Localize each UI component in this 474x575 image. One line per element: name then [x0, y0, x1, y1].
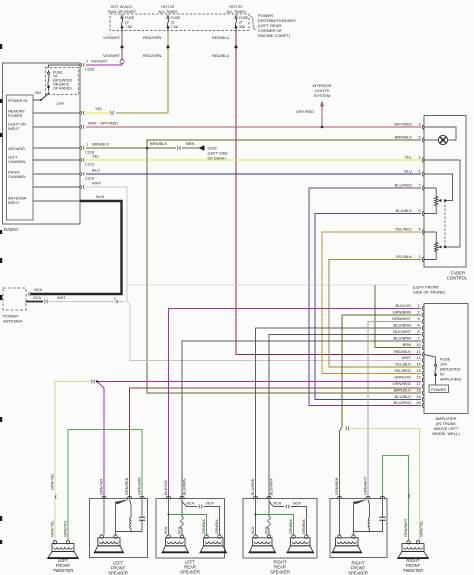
- radio ground connector C216: [81, 146, 85, 150]
- svg-text:10A: 10A: [440, 363, 447, 367]
- svg-text:BRN/BLK: BRN/BLK: [150, 141, 167, 146]
- svg-text:G202: G202: [208, 147, 217, 151]
- svg-text:OFF: OFF: [57, 102, 65, 106]
- svg-text:GRN/YEL: GRN/YEL: [420, 520, 424, 537]
- svg-text:MEMORY: MEMORY: [8, 110, 25, 114]
- svg-text:SPEAKER: SPEAKER: [270, 570, 290, 575]
- svg-text:GROUND: GROUND: [8, 147, 25, 151]
- svg-text:ALL TIMES: ALL TIMES: [226, 10, 246, 14]
- wire GRN/YEL to right front tweeter: [351, 429, 420, 541]
- right front speaker wires internal: [339, 499, 341, 536]
- wire GRN bridge right front speaker to tweeter: [383, 456, 409, 541]
- connector on GRN/BRN to GRN/YEL: [346, 427, 350, 431]
- svg-text:RED/BLK: RED/BLK: [394, 349, 411, 354]
- connector on right tweeter wire: [408, 494, 411, 498]
- svg-text:POWER IN: POWER IN: [8, 99, 27, 103]
- wire GRN/WHT amp 3 to right front speaker: [368, 322, 421, 499]
- svg-text:GRN/YEL: GRN/YEL: [51, 473, 55, 490]
- svg-text:AMPLIFIER): AMPLIFIER): [440, 378, 462, 382]
- wire VIO/GRY radio pin 2 to splice: [86, 64, 122, 66]
- svg-text:GRY/RED: GRY/RED: [100, 121, 118, 126]
- svg-text:GRN/BLK: GRN/BLK: [302, 518, 306, 534]
- svg-text:BLU/RED: BLU/RED: [395, 183, 412, 188]
- wire YEL radio left channel to fader pin 1: [86, 159, 421, 161]
- svg-text:NCA: NCA: [293, 502, 301, 506]
- connector on GRN/VIO to GRN/YEL: [91, 380, 95, 384]
- svg-text:RED/GRN: RED/GRN: [143, 35, 162, 40]
- fader pin 3 internal wire: [424, 127, 456, 140]
- svg-text:OF RADIO): OF RADIO): [53, 87, 72, 91]
- svg-text:GRN/WHT: GRN/WHT: [404, 518, 408, 537]
- fader balance pot 1: [424, 188, 436, 197]
- fuse 21 7.5A: [167, 15, 169, 17]
- left front speaker coil: [130, 500, 132, 518]
- svg-text:1: 1: [114, 297, 116, 301]
- svg-text:YEL/RED: YEL/RED: [395, 227, 412, 232]
- svg-text:BRN: BRN: [403, 342, 412, 347]
- left front speaker wires internal: [103, 499, 105, 536]
- fader wiper link dashed: [444, 201, 446, 248]
- svg-text:1: 1: [86, 143, 88, 147]
- svg-text:YEL/RED: YEL/RED: [394, 368, 411, 373]
- connector on YEL to RED/GRN wire: [110, 111, 114, 115]
- svg-text:IN: IN: [440, 373, 444, 377]
- svg-text:LEFT: LEFT: [8, 156, 18, 160]
- left front side of trunk leader line: [128, 284, 408, 286]
- svg-text:BLU/BRN: BLU/BRN: [251, 478, 255, 495]
- svg-text:NCA: NCA: [164, 526, 168, 534]
- right rear speaker box: [243, 499, 317, 559]
- radio memory power stub: [33, 112, 80, 114]
- svg-text:NCA: NCA: [206, 502, 214, 506]
- interior lights arrow: [321, 106, 323, 127]
- svg-text:GRN/BLK: GRN/BLK: [289, 518, 293, 534]
- svg-text:BLU/BLK: BLU/BLK: [395, 394, 412, 399]
- svg-text:NCA: NCA: [187, 502, 195, 506]
- svg-text:ALL TIMES: ALL TIMES: [158, 10, 178, 14]
- svg-text:GRN/VIO: GRN/VIO: [100, 479, 104, 495]
- svg-text:HOT IN ACC,: HOT IN ACC,: [111, 5, 134, 9]
- svg-text:SPEAKER: SPEAKER: [348, 571, 368, 575]
- radio light on stub: [33, 126, 80, 128]
- fader pin 8 internal wire: [424, 139, 438, 141]
- ground connector: [177, 146, 181, 150]
- radio fuse wire to pin 2: [49, 65, 81, 68]
- svg-text:12: 12: [416, 355, 421, 360]
- wire BRN amp pin 10: [375, 285, 421, 348]
- right front speaker terminals: [337, 496, 341, 498]
- radio inner box: [7, 95, 34, 220]
- svg-text:BLK/WHT: BLK/WHT: [393, 329, 411, 334]
- svg-text:FUSE: FUSE: [440, 358, 451, 362]
- fader illumination lamp: [438, 135, 447, 144]
- wire GRN/RED amp 17 to left front speaker: [130, 388, 422, 499]
- svg-text:WHT: WHT: [88, 121, 98, 126]
- wire WHT radio to antenna junction and amp pin 12: [86, 187, 421, 361]
- svg-text:CONTROL: CONTROL: [447, 276, 468, 281]
- radio fuse 7A symbol: [48, 70, 50, 72]
- svg-text:GRY/RED: GRY/RED: [394, 122, 412, 127]
- svg-text:POWER: POWER: [8, 114, 23, 118]
- radio fuse 7A dashed box: [46, 68, 79, 95]
- svg-text:SIDE OF TRUNK): SIDE OF TRUNK): [413, 290, 446, 295]
- svg-text:15: 15: [416, 368, 421, 373]
- svg-text:C213: C213: [85, 163, 94, 167]
- svg-text:GRN/RED: GRN/RED: [125, 477, 129, 495]
- amplifier pin sockets and labels: [423, 306, 424, 311]
- svg-text:GRN/BRN: GRN/BRN: [335, 477, 339, 495]
- svg-text:GRN/BLK: GRN/BLK: [202, 518, 206, 534]
- wire BLK/WHT amp 5 to right rear speaker: [269, 335, 421, 499]
- svg-text:21: 21: [171, 21, 175, 25]
- right front speaker driver: [336, 538, 359, 546]
- fader pin 1 internal wire: [424, 160, 460, 247]
- svg-text:VIO/GRY: VIO/GRY: [91, 59, 108, 64]
- svg-text:BLU/BRN: BLU/BRN: [183, 478, 187, 495]
- wire BLU/BLK fader 5 to amp 19: [315, 214, 421, 400]
- svg-text:RED/GRN: RED/GRN: [143, 53, 162, 58]
- radio pin 2 connector C216: [81, 63, 85, 67]
- svg-text:12: 12: [125, 21, 129, 25]
- radio light-on connector: [81, 125, 85, 129]
- svg-text:GRY/RED: GRY/RED: [296, 109, 314, 114]
- svg-text:FUSE: FUSE: [239, 16, 249, 20]
- radio right channel wht stub: [33, 186, 80, 188]
- svg-text:20: 20: [416, 400, 421, 405]
- wire YEL/BLK fader 2 to amp 14: [329, 260, 421, 368]
- svg-text:GRN/VIO: GRN/VIO: [394, 375, 411, 380]
- radio right channel connector C214: [81, 172, 85, 176]
- svg-text:BRN: BRN: [186, 141, 195, 146]
- svg-text:GRN/WHT: GRN/WHT: [392, 316, 412, 321]
- amplifier fuse 10A: [424, 355, 436, 363]
- svg-text:NCA: NCA: [34, 288, 42, 292]
- svg-text:HOT AT: HOT AT: [229, 5, 243, 9]
- svg-text:NCA: NCA: [96, 194, 105, 199]
- fader control box: [424, 116, 466, 268]
- svg-text:GRN/VIO: GRN/VIO: [64, 521, 68, 537]
- svg-text:BRN/BLK: BRN/BLK: [395, 135, 412, 140]
- right front speaker box: [330, 499, 387, 558]
- radio wht connector: [81, 185, 85, 189]
- svg-text:YEL/BLK: YEL/BLK: [395, 362, 412, 367]
- svg-text:HOT AT: HOT AT: [161, 5, 175, 9]
- svg-text:BLK/VIO: BLK/VIO: [395, 303, 411, 308]
- power distribution box callout text: [250, 16, 256, 30]
- power antenna box: [3, 288, 26, 310]
- svg-text:SPEAKER: SPEAKER: [180, 570, 200, 575]
- svg-text:NCA: NCA: [274, 502, 282, 506]
- svg-text:WHEEL WELL): WHEEL WELL): [432, 431, 460, 436]
- left front speaker box: [90, 499, 148, 558]
- radio power switch: [33, 99, 41, 101]
- svg-text:YEL/BLK: YEL/BLK: [396, 254, 413, 259]
- wire BLK/VIO amp 1 to left rear speaker: [169, 309, 422, 499]
- svg-text:BLU/RED: BLU/RED: [394, 400, 411, 405]
- svg-text:RED/BLU: RED/BLU: [212, 53, 229, 58]
- svg-text:BLK/VIO: BLK/VIO: [164, 480, 168, 495]
- svg-text:BRN/BLK: BRN/BLK: [92, 142, 109, 147]
- svg-text:30A: 30A: [239, 25, 246, 29]
- left rear speaker box: [156, 499, 225, 559]
- amplifier box: [424, 304, 468, 414]
- svg-text:RADIO: RADIO: [4, 227, 18, 232]
- svg-text:WHT: WHT: [92, 181, 102, 186]
- radio outer box: [3, 63, 81, 224]
- splice circle VIO/WHT to VIO/GRY: [120, 60, 124, 64]
- svg-text:YEL: YEL: [404, 155, 412, 160]
- fader pin 6 internal wire: [424, 174, 453, 201]
- svg-text:GRN/WHT: GRN/WHT: [364, 476, 368, 495]
- svg-text:NCA: NCA: [33, 296, 41, 300]
- radio ground stub: [33, 147, 80, 149]
- radio memory connector: [81, 111, 85, 115]
- fader balance pot 2: [424, 232, 436, 243]
- svg-text:YEL: YEL: [95, 106, 103, 111]
- connector on left tweeter wire: [54, 495, 57, 499]
- wire BRN/BLK radio ground: [86, 147, 176, 149]
- left front tweeter: [52, 544, 74, 552]
- wire GRN bridge left front speaker to tweeter: [68, 430, 142, 541]
- svg-text:CHANNEL: CHANNEL: [8, 175, 26, 179]
- radio left channel connector C213: [81, 158, 85, 162]
- svg-text:7.5A: 7.5A: [171, 25, 179, 29]
- wire RED/GRN fuse 21 to radio memory power: [116, 31, 168, 114]
- fader pin sockets and labels: [423, 125, 424, 130]
- svg-text:GRN/BRN: GRN/BRN: [393, 310, 412, 315]
- svg-text:BLK/WHT: BLK/WHT: [270, 477, 274, 495]
- scan edge marks: [0, 44, 2, 49]
- wire NCA antenna coax: [30, 201, 122, 294]
- left front speaker capacitor: [141, 499, 143, 518]
- svg-text:CHANNEL: CHANNEL: [8, 160, 26, 164]
- wire BRN/BLK down to amp pin 18: [147, 148, 421, 393]
- svg-text:SPEAKER: SPEAKER: [108, 571, 128, 575]
- wire BLU/RED fader 7 to amp 20: [309, 188, 421, 406]
- svg-text:ON: ON: [35, 91, 41, 95]
- svg-text:GRN/GRN: GRN/GRN: [138, 477, 142, 495]
- svg-text:ANTENNA: ANTENNA: [8, 197, 27, 201]
- svg-text:POWER: POWER: [431, 387, 446, 392]
- svg-text:BLU: BLU: [92, 168, 100, 173]
- fuse 12 7.5A: [121, 15, 123, 17]
- svg-text:NCA: NCA: [251, 526, 255, 534]
- svg-text:14: 14: [416, 362, 421, 367]
- radio antenna stub: [33, 200, 80, 202]
- svg-text:GRN/YEL: GRN/YEL: [51, 520, 55, 537]
- svg-text:WHT: WHT: [57, 296, 66, 300]
- wire GRN/YEL to left front tweeter: [55, 382, 90, 541]
- svg-text:GRN/BLK: GRN/BLK: [215, 518, 219, 534]
- svg-text:27: 27: [239, 21, 243, 25]
- wire BRN/BLK fader pin 8 run: [147, 140, 421, 148]
- ground G202 symbol: [199, 145, 205, 151]
- wire GRY/RED radio light-on to fader pin 3: [86, 126, 421, 128]
- svg-text:VIO/WHT: VIO/WHT: [103, 35, 121, 40]
- svg-text:TWEETER: TWEETER: [403, 568, 423, 573]
- svg-text:RED/BLU: RED/BLU: [212, 35, 229, 40]
- svg-text:VIO/WHT: VIO/WHT: [103, 53, 121, 58]
- svg-text:RIGHT: RIGHT: [8, 171, 20, 175]
- wire GRN/BRN amp 2 to right front speaker: [340, 315, 422, 499]
- svg-text:FUSE: FUSE: [125, 16, 135, 20]
- left front speaker driver: [98, 538, 120, 546]
- svg-text:ENGINE COMPT): ENGINE COMPT): [258, 33, 291, 38]
- svg-text:BLU/BRN: BLU/BRN: [394, 336, 411, 341]
- wire BRN to ground: [182, 147, 199, 149]
- radio left channel stub: [33, 159, 80, 161]
- svg-text:WHT: WHT: [402, 355, 412, 360]
- radio right channel stub: [33, 173, 80, 175]
- wire GRN/VIO amp 16 to left front speaker: [97, 381, 421, 383]
- wire RED/BLU fuse 27 to amp pin 11: [236, 31, 421, 355]
- svg-text:INPUT: INPUT: [8, 201, 20, 205]
- amplifier power box: [429, 385, 449, 393]
- fuse 27 30A: [235, 15, 237, 17]
- wire BLU/BRN amp 7 to left rear speaker: [182, 341, 421, 499]
- right front speaker capacitor: [382, 499, 384, 518]
- svg-text:INPUT: INPUT: [8, 127, 20, 131]
- svg-text:7.5A: 7.5A: [125, 25, 133, 29]
- svg-text:TWEETER: TWEETER: [53, 568, 73, 573]
- svg-text:C216: C216: [85, 68, 94, 72]
- svg-text:2: 2: [86, 60, 88, 64]
- wire BLU/BRN amp 4 to right rear speaker: [256, 328, 422, 499]
- svg-text:(LEFT SIDE: (LEFT SIDE: [208, 152, 229, 156]
- svg-text:(MOUNTED: (MOUNTED: [440, 368, 461, 372]
- power antenna wht wire: [26, 301, 43, 303]
- svg-text:ANTENNA: ANTENNA: [3, 319, 22, 324]
- svg-text:NCA: NCA: [265, 526, 269, 534]
- power distribution box (dashed): [110, 14, 249, 31]
- wire YEL/RED fader 4 to amp 15: [322, 232, 421, 374]
- wire YEL radio memory to RED/GRN: [86, 112, 109, 114]
- right front speaker coil: [368, 500, 370, 518]
- power antenna NCA connector: [27, 292, 30, 296]
- svg-text:BLU/BLK: BLU/BLK: [396, 208, 413, 213]
- svg-text:16: 16: [416, 375, 421, 380]
- left front speaker terminals: [102, 496, 106, 498]
- svg-text:FUSE: FUSE: [171, 16, 181, 20]
- svg-text:LIGHT ON: LIGHT ON: [8, 123, 26, 127]
- svg-text:NCA: NCA: [178, 526, 182, 534]
- svg-text:RUN OR START: RUN OR START: [108, 10, 137, 14]
- svg-text:YEL: YEL: [92, 154, 100, 159]
- svg-text:BLU/BRN: BLU/BRN: [394, 323, 411, 328]
- svg-text:SYSTEM: SYSTEM: [314, 93, 330, 98]
- svg-text:10: 10: [416, 342, 421, 347]
- wire VIO/WHT from fuse 12: [121, 31, 123, 60]
- wire BLU radio right channel to fader pin 6: [86, 173, 421, 175]
- svg-text:19: 19: [416, 394, 421, 399]
- svg-text:BLU: BLU: [404, 169, 412, 174]
- right front tweeter: [402, 544, 424, 552]
